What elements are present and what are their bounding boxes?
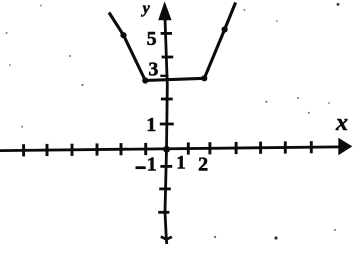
svg-text:5: 5 — [147, 28, 157, 50]
x-axis tick 5 — [284, 141, 287, 153]
x-axis arrowhead — [338, 138, 352, 155]
x-axis — [0, 147, 340, 151]
curve bottom segment y=3 — [145, 78, 204, 80]
point (3,5) — [222, 26, 228, 32]
curve right branch — [204, 3, 235, 79]
x-axis tick 3 — [235, 142, 238, 154]
y-axis tick -4 — [161, 237, 172, 240]
svg-text:2: 2 — [198, 153, 208, 175]
point (-1,3) — [142, 77, 148, 83]
label -1 minus dash — [136, 166, 146, 169]
speckle top right — [337, 3, 340, 6]
y-axis tick 5 — [161, 32, 172, 35]
x-axis tick -5 — [46, 144, 49, 156]
x-axis tick -3 — [96, 143, 99, 155]
curve left branch — [109, 13, 145, 81]
svg-text:1: 1 — [176, 153, 186, 174]
point (-2,5) — [120, 32, 126, 38]
svg-text:1: 1 — [146, 114, 156, 136]
y-axis tick -2 — [159, 187, 171, 190]
y-axis — [165, 18, 167, 244]
x-axis tick 6 — [310, 141, 313, 153]
svg-text:y: y — [141, 0, 151, 17]
x-axis tick 4 — [259, 142, 262, 154]
y-axis arrowhead — [158, 1, 171, 20]
x-axis tick 2 — [208, 142, 211, 154]
speckle dark bottom — [274, 236, 277, 239]
y-axis tick -3 — [158, 211, 169, 214]
svg-text:1: 1 — [147, 154, 157, 176]
x-axis tick -1 — [144, 143, 147, 155]
y-axis tick 4 — [162, 56, 174, 59]
x-axis tick -2 — [120, 143, 123, 155]
y-axis tick 3 — [160, 75, 168, 77]
x-axis tick -4 — [71, 144, 74, 156]
y-axis tick 1 — [160, 123, 174, 126]
x-axis tick 1 — [187, 142, 190, 154]
point (2,3) — [201, 75, 207, 81]
y-axis tick -1 — [160, 165, 172, 168]
svg-text:3: 3 — [148, 58, 158, 80]
origin point — [163, 146, 170, 153]
svg-text:x: x — [335, 110, 348, 136]
y-axis tick 2 — [161, 98, 173, 101]
x-axis tick -6 — [22, 144, 25, 156]
